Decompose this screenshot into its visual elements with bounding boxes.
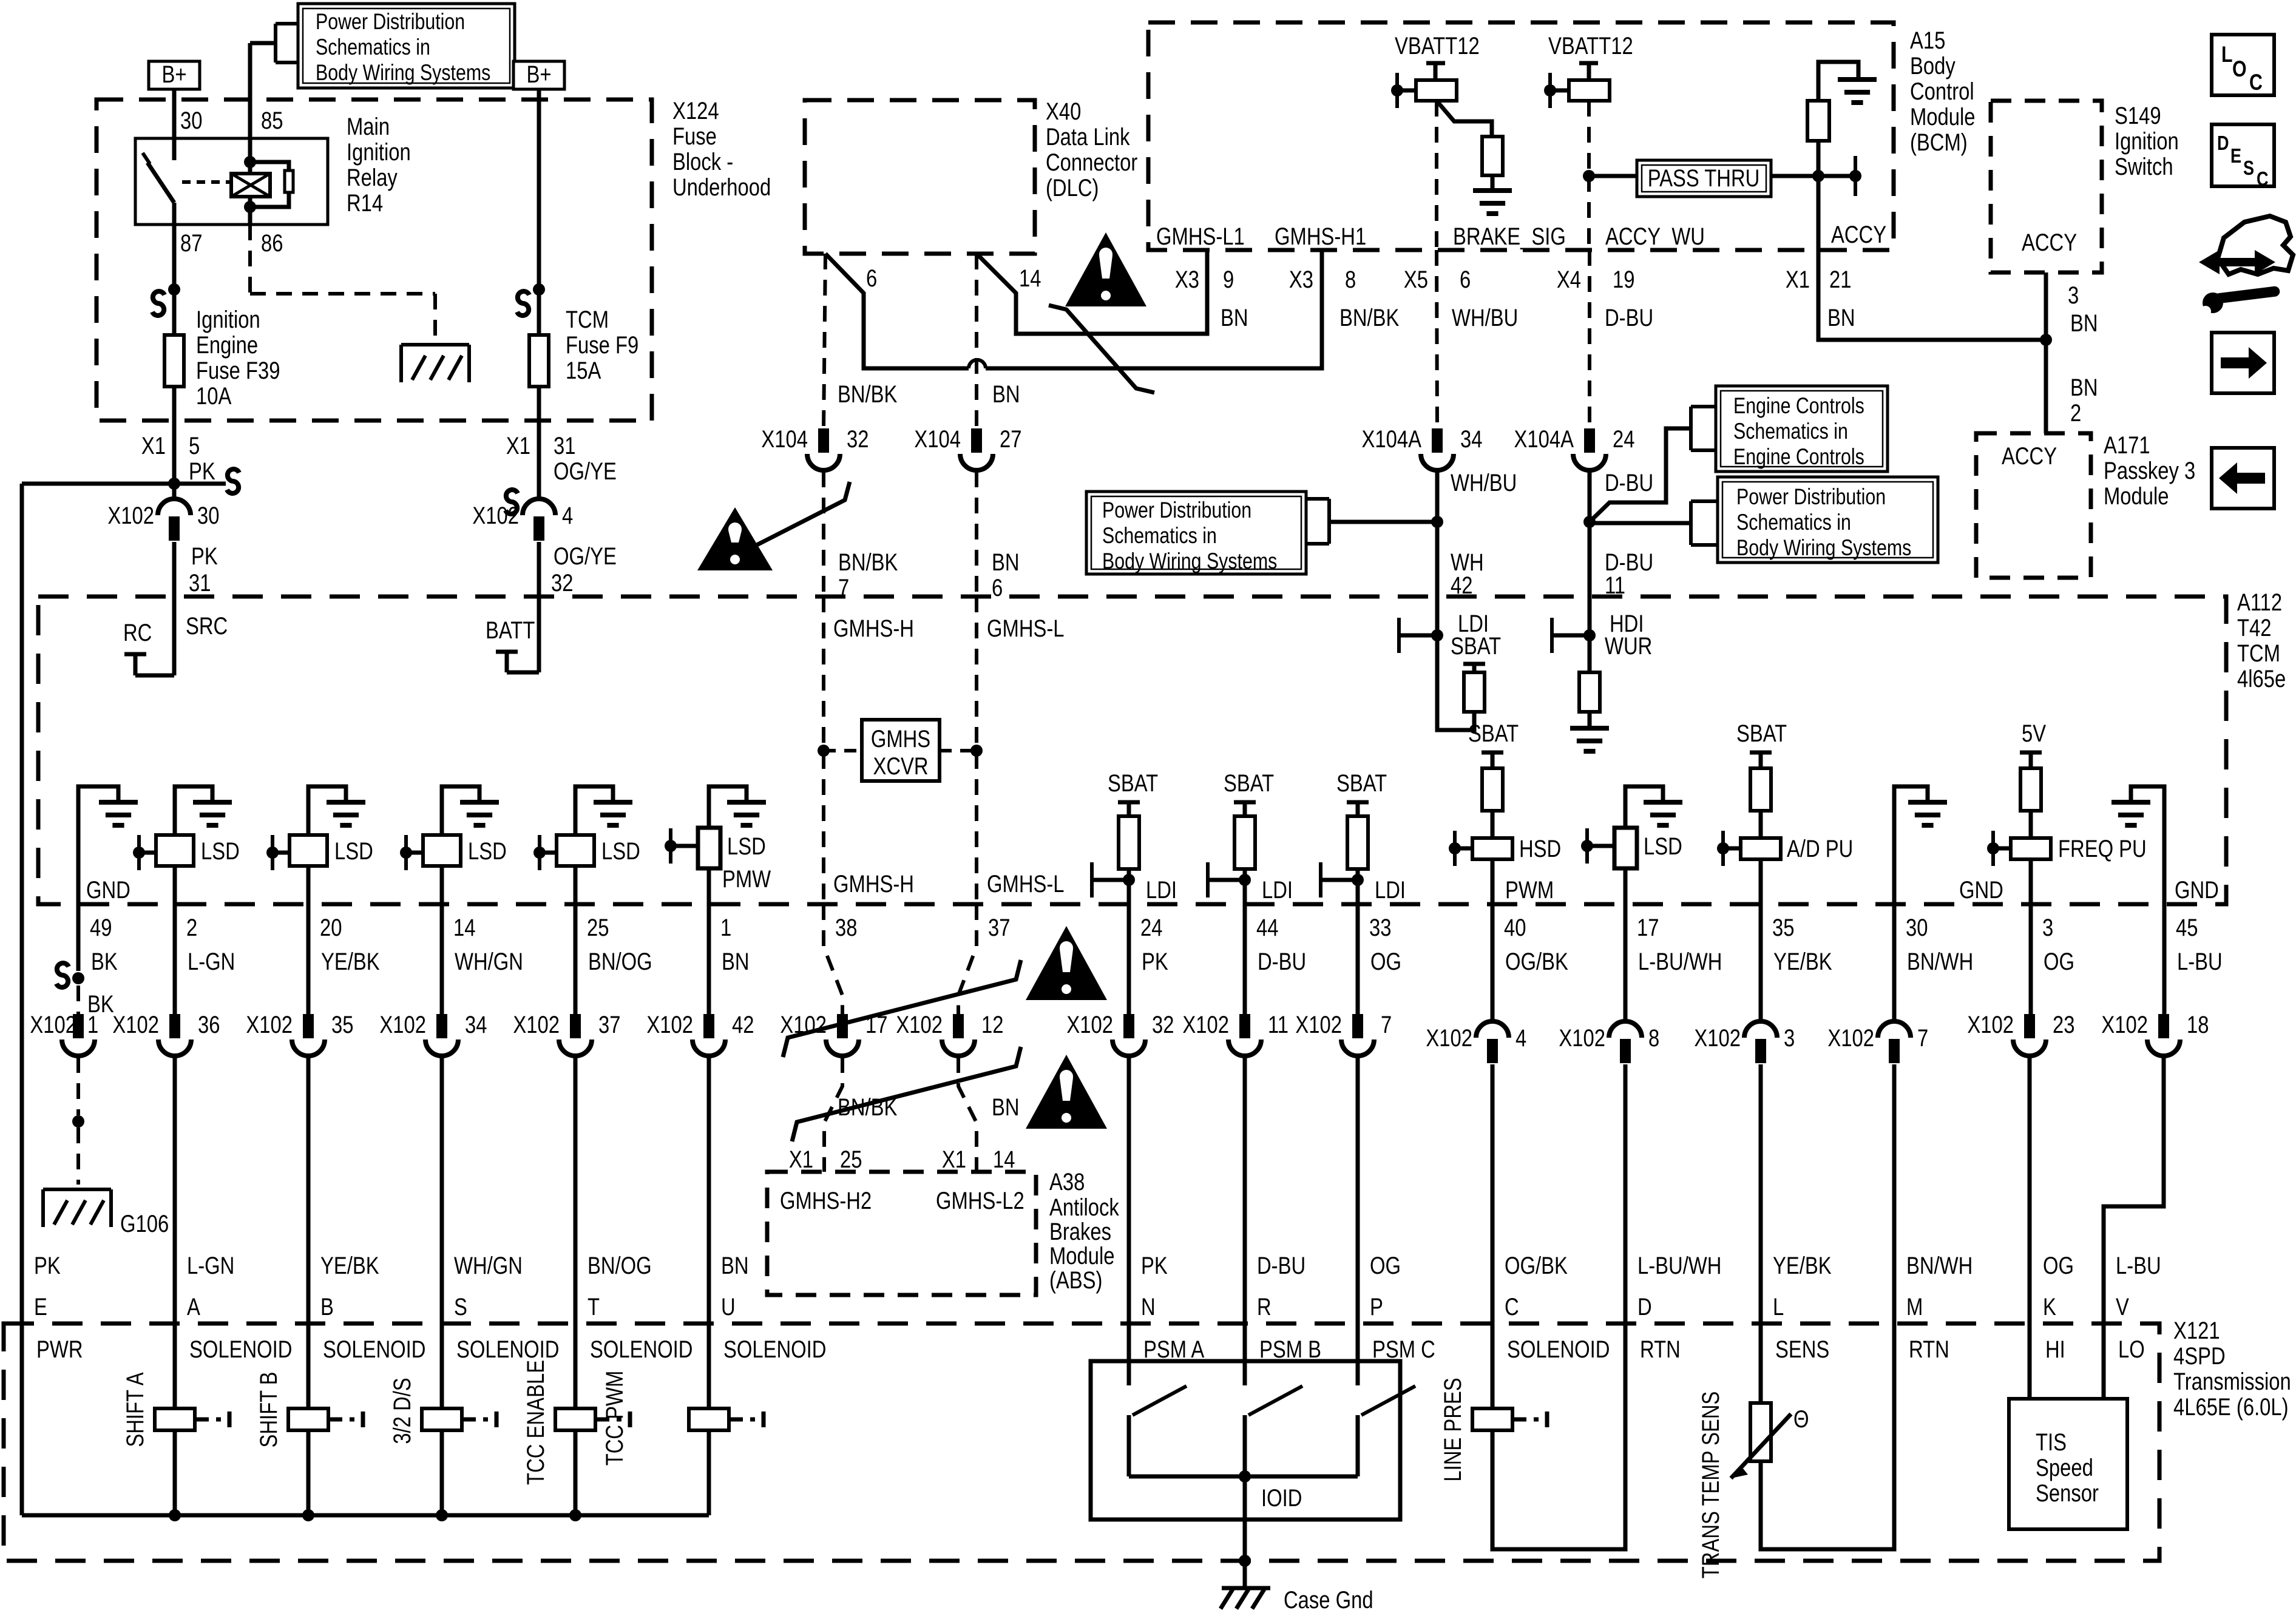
svg-text:31: 31 — [189, 569, 211, 597]
svg-text:OG: OG — [1370, 948, 1401, 975]
svg-text:E: E — [2230, 146, 2241, 167]
svg-text:12: 12 — [981, 1011, 1003, 1038]
svg-text:(ABS): (ABS) — [1049, 1266, 1102, 1294]
svg-text:X1: X1 — [942, 1146, 966, 1173]
svg-text:YE/BK: YE/BK — [320, 1252, 379, 1279]
svg-text:K: K — [2043, 1293, 2056, 1320]
svg-text:14: 14 — [993, 1146, 1015, 1173]
svg-text:37: 37 — [598, 1011, 620, 1038]
svg-text:PK: PK — [34, 1252, 61, 1279]
svg-text:BN: BN — [2070, 374, 2098, 401]
svg-text:X102: X102 — [1559, 1024, 1605, 1052]
svg-text:B+: B+ — [526, 61, 551, 88]
svg-text:A/D PU: A/D PU — [1787, 835, 1853, 862]
svg-text:Ignition: Ignition — [2115, 127, 2179, 155]
svg-text:32: 32 — [847, 425, 869, 453]
svg-text:Engine: Engine — [196, 331, 258, 359]
svg-text:TCC PWM: TCC PWM — [601, 1371, 628, 1466]
svg-text:X3: X3 — [1175, 266, 1199, 293]
svg-text:34: 34 — [1460, 425, 1482, 453]
svg-text:BRAKE_SIG: BRAKE_SIG — [1453, 223, 1566, 250]
svg-text:A15: A15 — [1910, 27, 1945, 54]
svg-text:X102: X102 — [2101, 1011, 2148, 1038]
svg-text:X102: X102 — [1967, 1011, 2014, 1038]
svg-text:D: D — [1637, 1293, 1652, 1320]
svg-text:2: 2 — [186, 914, 197, 941]
svg-text:SBAT: SBAT — [1451, 632, 1501, 660]
svg-text:SOLENOID: SOLENOID — [723, 1336, 826, 1363]
svg-text:BN: BN — [992, 549, 1020, 576]
svg-text:BN: BN — [1221, 304, 1248, 331]
svg-text:Main: Main — [347, 113, 390, 140]
svg-text:OG/YE: OG/YE — [554, 543, 617, 570]
svg-text:Underhood: Underhood — [672, 174, 771, 201]
svg-text:SBAT: SBAT — [1736, 720, 1787, 747]
svg-text:PWM: PWM — [1505, 876, 1554, 904]
svg-text:TIS: TIS — [2036, 1428, 2067, 1456]
svg-text:R14: R14 — [347, 189, 383, 217]
svg-text:A112: A112 — [2237, 589, 2282, 616]
svg-text:GMHS-H: GMHS-H — [833, 870, 914, 898]
svg-text:OG: OG — [1370, 1252, 1401, 1279]
svg-text:RTN: RTN — [1909, 1336, 1949, 1363]
svg-text:SBAT: SBAT — [1468, 720, 1519, 747]
svg-text:23: 23 — [2053, 1011, 2074, 1038]
svg-text:6: 6 — [866, 265, 877, 292]
svg-text:14: 14 — [1019, 265, 1041, 292]
svg-text:Ignition: Ignition — [196, 306, 260, 333]
svg-text:BN: BN — [1827, 304, 1855, 331]
svg-text:37: 37 — [988, 914, 1010, 941]
svg-text:D-BU: D-BU — [1605, 469, 1653, 496]
svg-text:OG/BK: OG/BK — [1505, 948, 1568, 975]
svg-text:86: 86 — [261, 229, 283, 257]
svg-text:BN: BN — [2070, 309, 2098, 337]
svg-text:24: 24 — [1613, 425, 1634, 453]
svg-text:31: 31 — [554, 432, 575, 459]
svg-text:Schematics in: Schematics in — [1733, 419, 1848, 444]
svg-text:E: E — [34, 1293, 47, 1320]
svg-text:LSD: LSD — [334, 837, 373, 865]
svg-text:Module: Module — [2104, 482, 2169, 510]
svg-text:A38: A38 — [1049, 1168, 1085, 1195]
svg-text:D-BU: D-BU — [1258, 948, 1306, 975]
svg-text:XCVR: XCVR — [873, 752, 928, 780]
svg-text:20: 20 — [320, 914, 342, 941]
svg-text:Passkey 3: Passkey 3 — [2104, 457, 2195, 484]
svg-text:SOLENOID: SOLENOID — [189, 1336, 292, 1363]
svg-text:GMHS-H: GMHS-H — [833, 615, 914, 642]
svg-text:GMHS-L: GMHS-L — [987, 615, 1065, 642]
svg-text:3/2 D/S: 3/2 D/S — [388, 1378, 416, 1444]
svg-text:RC: RC — [123, 619, 152, 646]
svg-text:GMHS-L: GMHS-L — [987, 870, 1065, 898]
svg-text:BN: BN — [992, 1094, 1020, 1121]
svg-text:35: 35 — [331, 1011, 353, 1038]
svg-text:FREQ PU: FREQ PU — [2058, 835, 2147, 862]
svg-text:ACCY_WU: ACCY_WU — [1605, 223, 1705, 250]
svg-text:4l65e: 4l65e — [2237, 665, 2286, 692]
svg-text:Module: Module — [1910, 103, 1976, 130]
svg-text:S: S — [454, 1293, 467, 1320]
svg-text:Data Link: Data Link — [1046, 123, 1130, 150]
svg-text:87: 87 — [180, 229, 202, 257]
svg-text:33: 33 — [1369, 914, 1391, 941]
svg-text:4: 4 — [1515, 1024, 1526, 1052]
svg-text:5: 5 — [189, 432, 200, 459]
svg-text:TCM: TCM — [2237, 640, 2280, 667]
svg-text:PK: PK — [1142, 948, 1168, 975]
svg-text:X104: X104 — [761, 425, 808, 453]
svg-text:LSD: LSD — [601, 837, 640, 865]
svg-text:Ignition: Ignition — [347, 138, 411, 166]
svg-text:X102: X102 — [1182, 1011, 1229, 1038]
svg-text:OG: OG — [2044, 948, 2074, 975]
svg-text:B+: B+ — [161, 61, 186, 88]
svg-text:GND: GND — [2175, 876, 2219, 904]
svg-text:SOLENOID: SOLENOID — [323, 1336, 425, 1363]
svg-text:X102: X102 — [107, 502, 154, 529]
svg-text:Antilock: Antilock — [1049, 1194, 1119, 1221]
svg-text:PMW: PMW — [722, 865, 771, 893]
svg-text:X5: X5 — [1404, 266, 1428, 293]
svg-text:PASS THRU: PASS THRU — [1648, 164, 1760, 192]
svg-text:(DLC): (DLC) — [1046, 174, 1099, 201]
svg-text:BN/BK: BN/BK — [838, 380, 897, 408]
svg-text:X124: X124 — [672, 97, 719, 124]
svg-text:35: 35 — [1772, 914, 1794, 941]
svg-text:25: 25 — [587, 914, 609, 941]
svg-text:36: 36 — [198, 1011, 220, 1038]
svg-text:A: A — [187, 1293, 200, 1320]
svg-text:30: 30 — [180, 107, 202, 134]
svg-text:X102: X102 — [513, 1011, 560, 1038]
svg-text:X102: X102 — [112, 1011, 159, 1038]
svg-text:30: 30 — [1906, 914, 1928, 941]
svg-text:D-BU: D-BU — [1605, 304, 1653, 331]
svg-text:4SPD: 4SPD — [2173, 1342, 2226, 1370]
svg-text:X102: X102 — [246, 1011, 293, 1038]
svg-text:4: 4 — [562, 502, 573, 529]
svg-text:45: 45 — [2176, 914, 2198, 941]
svg-text:T: T — [588, 1293, 600, 1320]
svg-text:N: N — [1141, 1293, 1156, 1320]
svg-text:SRC: SRC — [186, 612, 228, 640]
svg-text:LSD: LSD — [1644, 833, 1682, 860]
svg-text:3: 3 — [2068, 282, 2079, 309]
svg-text:YE/BK: YE/BK — [1773, 948, 1832, 975]
svg-text:25: 25 — [840, 1146, 862, 1173]
svg-text:Body: Body — [1910, 52, 1956, 79]
svg-text:32: 32 — [1152, 1011, 1174, 1038]
svg-text:Body Wiring Systems: Body Wiring Systems — [1736, 535, 1911, 561]
svg-text:BN/WH: BN/WH — [1907, 948, 1973, 975]
svg-text:IOID: IOID — [1261, 1484, 1302, 1512]
svg-text:TCC ENABLE: TCC ENABLE — [522, 1360, 549, 1485]
svg-text:1: 1 — [87, 1011, 98, 1038]
svg-text:Block -: Block - — [672, 148, 733, 175]
svg-text:Schematics in: Schematics in — [1102, 523, 1217, 549]
svg-text:Switch: Switch — [2115, 153, 2173, 180]
svg-text:17: 17 — [1637, 914, 1659, 941]
svg-text:30: 30 — [197, 502, 219, 529]
svg-text:Power Distribution: Power Distribution — [1736, 484, 1886, 510]
svg-text:Engine Controls: Engine Controls — [1733, 393, 1864, 419]
svg-text:TCM: TCM — [566, 306, 609, 333]
svg-text:5V: 5V — [2022, 720, 2047, 747]
svg-text:X102: X102 — [30, 1011, 76, 1038]
svg-text:L-BU: L-BU — [2116, 1252, 2161, 1279]
svg-text:X40: X40 — [1046, 98, 1081, 125]
svg-text:LDI: LDI — [1375, 876, 1406, 904]
svg-text:R: R — [1257, 1293, 1272, 1320]
svg-text:T42: T42 — [2237, 614, 2272, 641]
svg-text:38: 38 — [835, 914, 857, 941]
svg-text:11: 11 — [1268, 1011, 1289, 1038]
svg-text:SOLENOID: SOLENOID — [590, 1336, 693, 1363]
svg-text:Fuse F9: Fuse F9 — [566, 331, 638, 359]
svg-text:OG/BK: OG/BK — [1505, 1252, 1568, 1279]
svg-text:Brakes: Brakes — [1049, 1218, 1111, 1245]
svg-text:Body Wiring Systems: Body Wiring Systems — [316, 60, 490, 86]
svg-text:L-BU/WH: L-BU/WH — [1638, 948, 1722, 975]
svg-text:WUR: WUR — [1605, 632, 1652, 660]
svg-text:6: 6 — [992, 574, 1003, 601]
svg-text:YE/BK: YE/BK — [321, 948, 380, 975]
svg-text:LO: LO — [2118, 1336, 2145, 1363]
svg-text:PK: PK — [189, 458, 215, 485]
svg-text:44: 44 — [1256, 914, 1278, 941]
svg-text:HSD: HSD — [1519, 835, 1561, 862]
svg-text:49: 49 — [90, 914, 112, 941]
svg-text:3: 3 — [2042, 914, 2053, 941]
svg-text:Sensor: Sensor — [2036, 1479, 2099, 1507]
svg-text:X1: X1 — [141, 432, 166, 459]
svg-text:9: 9 — [1223, 266, 1234, 293]
svg-text:X102: X102 — [1066, 1011, 1113, 1038]
svg-text:10A: 10A — [196, 382, 232, 410]
svg-text:Engine Controls: Engine Controls — [1733, 444, 1864, 470]
svg-text:SHIFT B: SHIFT B — [255, 1371, 282, 1447]
svg-text:Case Gnd: Case Gnd — [1284, 1586, 1373, 1614]
svg-text:C: C — [1505, 1293, 1519, 1320]
svg-text:X1: X1 — [506, 432, 530, 459]
svg-text:4L65E (6.0L): 4L65E (6.0L) — [2173, 1393, 2289, 1421]
svg-text:VBATT12: VBATT12 — [1548, 32, 1633, 59]
svg-text:PSM C: PSM C — [1372, 1336, 1435, 1363]
svg-text:X121: X121 — [2173, 1317, 2220, 1344]
svg-text:Schematics in: Schematics in — [316, 35, 430, 60]
svg-text:ACCY: ACCY — [2022, 229, 2077, 256]
svg-text:GMHS-H2: GMHS-H2 — [780, 1187, 872, 1214]
svg-text:LDI: LDI — [1262, 876, 1293, 904]
svg-text:40: 40 — [1504, 914, 1526, 941]
svg-text:1: 1 — [720, 914, 731, 941]
svg-text:X1: X1 — [1786, 266, 1810, 293]
svg-text:L-BU/WH: L-BU/WH — [1637, 1252, 1721, 1279]
svg-text:SBAT: SBAT — [1108, 769, 1158, 797]
svg-text:SOLENOID: SOLENOID — [456, 1336, 559, 1363]
svg-text:L: L — [1773, 1293, 1784, 1320]
svg-text:WH/BU: WH/BU — [1451, 469, 1517, 496]
svg-text:X102: X102 — [1295, 1011, 1342, 1038]
svg-text:PK: PK — [1141, 1252, 1168, 1279]
svg-text:Power Distribution: Power Distribution — [1102, 498, 1251, 523]
svg-text:X102: X102 — [646, 1011, 693, 1038]
svg-text:G106: G106 — [120, 1210, 169, 1237]
svg-text:GND: GND — [86, 876, 130, 904]
svg-text:WH/BU: WH/BU — [1452, 304, 1518, 331]
svg-text:V: V — [2116, 1293, 2129, 1320]
svg-text:B: B — [320, 1293, 334, 1320]
svg-text:PSM B: PSM B — [1259, 1336, 1321, 1363]
svg-text:19: 19 — [1613, 266, 1634, 293]
svg-text:Speed: Speed — [2036, 1454, 2093, 1481]
svg-text:GMHS: GMHS — [871, 725, 930, 752]
svg-text:LSD: LSD — [727, 833, 766, 860]
svg-text:X104A: X104A — [1362, 425, 1422, 453]
svg-text:PWR: PWR — [36, 1336, 83, 1363]
svg-text:BATT: BATT — [486, 617, 535, 644]
svg-text:34: 34 — [465, 1011, 487, 1038]
svg-text:L: L — [2221, 42, 2233, 67]
svg-text:SBAT: SBAT — [1336, 769, 1387, 797]
svg-text:BN/BK: BN/BK — [1339, 304, 1399, 331]
svg-text:7: 7 — [1917, 1024, 1928, 1052]
svg-text:WH/GN: WH/GN — [455, 948, 523, 975]
svg-text:GMHS-L2: GMHS-L2 — [936, 1187, 1024, 1214]
svg-text:X102: X102 — [1426, 1024, 1472, 1052]
svg-text:HI: HI — [2045, 1336, 2065, 1363]
svg-text:OG/YE: OG/YE — [554, 458, 617, 485]
svg-text:14: 14 — [453, 914, 475, 941]
svg-text:Control: Control — [1910, 78, 1974, 105]
svg-text:BN: BN — [992, 380, 1020, 408]
svg-text:6: 6 — [1460, 266, 1471, 293]
svg-text:Fuse F39: Fuse F39 — [196, 357, 280, 384]
svg-text:WH/GN: WH/GN — [454, 1252, 523, 1279]
svg-text:Power Distribution: Power Distribution — [316, 9, 465, 35]
svg-text:BN/WH: BN/WH — [1906, 1252, 1973, 1279]
svg-text:BN/OG: BN/OG — [588, 948, 652, 975]
svg-text:D-BU: D-BU — [1257, 1252, 1305, 1279]
svg-text:X4: X4 — [1557, 266, 1581, 293]
svg-text:L-GN: L-GN — [188, 948, 235, 975]
svg-text:U: U — [721, 1293, 736, 1320]
svg-text:18: 18 — [2187, 1011, 2209, 1038]
svg-text:21: 21 — [1829, 266, 1851, 293]
svg-text:32: 32 — [551, 569, 573, 597]
svg-text:Schematics in: Schematics in — [1736, 510, 1851, 535]
svg-text:SOLENOID: SOLENOID — [1507, 1336, 1610, 1363]
svg-text:85: 85 — [261, 107, 283, 134]
svg-text:L-BU: L-BU — [2177, 948, 2223, 975]
svg-text:Module: Module — [1049, 1242, 1115, 1269]
svg-text:Connector: Connector — [1046, 149, 1137, 176]
svg-text:8: 8 — [1345, 266, 1356, 293]
svg-text:OG: OG — [2043, 1252, 2074, 1279]
svg-text:SBAT: SBAT — [1224, 769, 1274, 797]
svg-text:X3: X3 — [1289, 266, 1313, 293]
svg-text:24: 24 — [1140, 914, 1162, 941]
svg-text:BN/OG: BN/OG — [588, 1252, 652, 1279]
svg-text:BN/BK: BN/BK — [838, 549, 898, 576]
svg-text:S149: S149 — [2115, 102, 2161, 129]
svg-text:VBATT12: VBATT12 — [1395, 32, 1480, 59]
svg-text:42: 42 — [732, 1011, 754, 1038]
svg-text:27: 27 — [1000, 425, 1021, 453]
svg-text:Relay: Relay — [347, 164, 398, 191]
svg-text:X102: X102 — [1827, 1024, 1874, 1052]
svg-text:BK: BK — [91, 948, 118, 975]
svg-text:LDI: LDI — [1146, 876, 1177, 904]
svg-text:ACCY: ACCY — [1831, 221, 1886, 248]
svg-text:X104A: X104A — [1514, 425, 1574, 453]
svg-text:SHIFT A: SHIFT A — [121, 1372, 149, 1447]
svg-text:Transmission: Transmission — [2173, 1368, 2291, 1395]
svg-text:(BCM): (BCM) — [1910, 129, 1968, 156]
svg-text:ACCY: ACCY — [2002, 442, 2057, 470]
svg-text:LSD: LSD — [468, 837, 507, 865]
svg-text:Fuse: Fuse — [672, 123, 717, 150]
svg-text:X102: X102 — [1694, 1024, 1741, 1052]
svg-text:A171: A171 — [2104, 431, 2150, 459]
svg-text:Body Wiring Systems: Body Wiring Systems — [1102, 549, 1277, 574]
svg-text:X104: X104 — [914, 425, 961, 453]
svg-text:GND: GND — [1959, 876, 2003, 904]
svg-text:8: 8 — [1648, 1024, 1659, 1052]
svg-text:GMHS-H1: GMHS-H1 — [1275, 223, 1366, 250]
svg-text:X102: X102 — [896, 1011, 943, 1038]
svg-text:BN: BN — [722, 948, 750, 975]
svg-text:PK: PK — [191, 543, 218, 570]
svg-text:L-GN: L-GN — [187, 1252, 234, 1279]
svg-text:O: O — [2232, 56, 2247, 82]
svg-text:7: 7 — [1381, 1011, 1392, 1038]
svg-text:YE/BK: YE/BK — [1773, 1252, 1832, 1279]
svg-text:C: C — [2257, 169, 2269, 191]
svg-text:TRANS TEMP SENS: TRANS TEMP SENS — [1697, 1391, 1724, 1579]
svg-text:D: D — [2217, 133, 2229, 155]
svg-text:Θ: Θ — [1793, 1405, 1809, 1433]
svg-text:GMHS-L1: GMHS-L1 — [1156, 223, 1245, 250]
svg-text:X1: X1 — [789, 1146, 813, 1173]
svg-text:LSD: LSD — [201, 837, 240, 865]
svg-text:X102: X102 — [379, 1011, 426, 1038]
svg-text:LINE PRES: LINE PRES — [1439, 1378, 1466, 1481]
svg-text:C: C — [2249, 70, 2263, 95]
svg-text:15A: 15A — [566, 357, 601, 384]
svg-text:BN: BN — [721, 1252, 749, 1279]
svg-text:PSM A: PSM A — [1143, 1336, 1205, 1363]
svg-text:M: M — [1906, 1293, 1923, 1320]
svg-text:P: P — [1370, 1293, 1383, 1320]
svg-text:RTN: RTN — [1640, 1336, 1681, 1363]
svg-text:3: 3 — [1784, 1024, 1795, 1052]
svg-text:SENS: SENS — [1775, 1336, 1829, 1363]
svg-text:2: 2 — [2070, 399, 2081, 427]
svg-text:S: S — [2243, 158, 2254, 180]
